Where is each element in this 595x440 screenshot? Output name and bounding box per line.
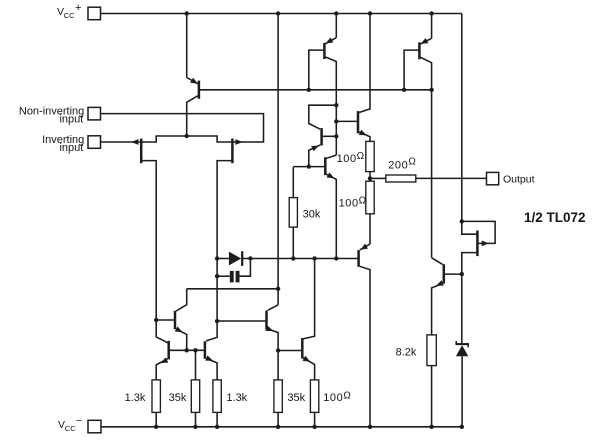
junction dot Q2 emitter on base line [185, 348, 189, 352]
resistor R30k (30k) [289, 198, 321, 228]
resistor R7 (100R) [310, 380, 351, 427]
capacitor C1 (compensation) [217, 259, 250, 283]
junction dot Q4 base [334, 134, 338, 138]
svg-text:35k: 35k [287, 392, 305, 404]
wire VCC mid column (rail to Q8 collector) [277, 14, 279, 305]
transistor Q9 (NPN current sink) [302, 259, 314, 380]
wire mirror base line (Q11 to Q12) [170, 349, 204, 351]
label 1/2 TL072 [524, 210, 586, 225]
wire Q1 emitter feed [186, 14, 188, 78]
resistor R2 (100R lower) [339, 181, 375, 214]
terminal Inverting input [42, 134, 100, 154]
wire non-inverting input to J2 gate [101, 114, 264, 142]
node common source (J1/J2) [185, 134, 189, 138]
junction dot C1 left [215, 274, 219, 278]
zener diode D2 [456, 341, 469, 427]
wire Q9 base line [278, 350, 301, 352]
transistor Q13 (NPN output, right) [432, 258, 462, 335]
junction dot Q8 emitter / Q9 base [276, 348, 280, 352]
svg-text:Output: Output [503, 173, 535, 185]
svg-text:input: input [59, 114, 83, 126]
wire 8.2k to rail [431, 366, 433, 427]
svg-text:+: + [75, 2, 81, 14]
transistor Q7 (PNP output) [359, 244, 370, 427]
wire 30k feed lower [292, 227, 294, 258]
terminal VCC- [58, 415, 101, 433]
junction dots on VCC- rail [154, 425, 464, 429]
transistor Q6 (NPN, drives 100R string) [336, 14, 370, 142]
svg-text:−: − [76, 415, 82, 427]
junction dot VCC mid at y=288.8 [276, 287, 280, 291]
wire 35k#1 feed [195, 350, 197, 380]
wire 30k feed upper [292, 167, 294, 198]
JFET J1 (inverting input, p-channel) [131, 139, 156, 320]
wire R2 to Q7 emitter [369, 214, 371, 244]
junction dot Q5 emitter node [334, 256, 338, 260]
svg-text:1/2 TL072: 1/2 TL072 [524, 210, 586, 225]
wire Q2 collector line [187, 288, 278, 290]
junction dot J1 drain / Q2 base [154, 318, 158, 322]
svg-text:30k: 30k [303, 208, 321, 220]
terminal Output [487, 172, 535, 185]
svg-text:Ω: Ω [408, 157, 416, 168]
wire VCC+ rail [101, 13, 462, 15]
junction dot bus end at Q10 collector [429, 88, 433, 92]
wire J3 drain to zener [461, 274, 463, 344]
JFET J3 (output bias, p-channel) [460, 219, 496, 274]
wire Q4 collector jog [309, 105, 337, 129]
junction dot at (336.3,105.2) [334, 103, 338, 107]
junction dot J2 drain / Q12 collector [215, 319, 219, 323]
resistor R4 (35k) [169, 380, 200, 427]
wire base bus (Q1/Q3/Q10 current mirror) [200, 89, 432, 91]
transistor Q12 (NPN mirror right) [205, 321, 217, 380]
wire Q5 base line [293, 166, 324, 168]
junction dot output node [368, 176, 372, 180]
JFET J2 (non-inverting input, p-channel) [217, 139, 243, 322]
resistor R5 (1.3k) [213, 380, 248, 427]
transistor Q11 (NPN mirror left) [156, 341, 169, 380]
wire Q10 emitter feed [431, 14, 433, 39]
wire VCC- rail [101, 426, 462, 428]
terminal VCC+ [57, 2, 101, 20]
wire J1 drain to Q11 collector [156, 320, 167, 343]
resistor R3 (1.3k) [125, 380, 161, 427]
svg-text:35k: 35k [169, 392, 187, 404]
svg-text:100: 100 [323, 392, 343, 404]
resistor R8 (200R) [370, 157, 416, 183]
svg-text:200: 200 [388, 159, 408, 171]
junction dot 35k tap on base line [193, 348, 197, 352]
wire Q12 collector node to Q8 base [217, 320, 265, 322]
wire inverting input to J1 gate [101, 141, 141, 143]
wire second-stage node (D1 cathode to Q7 base) [250, 258, 357, 260]
transistor Q5 (NPN second stage) [325, 155, 336, 258]
svg-text:100: 100 [337, 153, 357, 165]
transistor Q2 (NPN mirror helper) [156, 289, 187, 351]
transistor Q1 (PNP current source, input stage) [187, 78, 199, 137]
junction dot Q4 emitter / Q5 base [307, 164, 311, 168]
wire R1 to R2 [369, 172, 371, 182]
svg-text:CC: CC [64, 11, 75, 20]
resistor R6 (35k) [274, 380, 306, 427]
junction dot 30k bottom [291, 256, 295, 260]
svg-text:input: input [59, 142, 83, 154]
svg-text:CC: CC [65, 424, 76, 433]
svg-text:100: 100 [339, 198, 359, 210]
junction dot C1 top [248, 256, 252, 260]
svg-text:1.3k: 1.3k [226, 392, 247, 404]
resistor R1 (100R upper) [337, 141, 375, 171]
transistor Q3 (PNP mirror, middle) [309, 37, 337, 105]
wire right edge vertical (VCC+ to output JFET) [461, 14, 463, 222]
junction dot Q9 collector node [312, 256, 316, 260]
wire output line [416, 177, 487, 179]
junction dot Q6 base tap [334, 119, 338, 123]
wire common source staircase [142, 136, 232, 142]
transistor Q8 (NPN follower) [266, 305, 279, 351]
junction dot Q3 base on bus [307, 88, 311, 92]
svg-text:Ω: Ω [359, 196, 367, 207]
transistor Q4 (PNP diode-connected cascode) [309, 128, 337, 167]
wire 35k#2 feed [277, 351, 279, 380]
resistor R9 (8.2k) [396, 335, 437, 366]
svg-text:8.2k: 8.2k [396, 347, 417, 359]
transistor Q10 (PNP mirror, right) [404, 38, 432, 258]
wire Q3 emitter feed [335, 14, 337, 38]
junction dot D1 anode [215, 256, 219, 260]
wire chain x=336.3 (Q4 base/collector to Q5 collector) [335, 105, 337, 155]
svg-text:Ω: Ω [343, 391, 351, 402]
diode D1 (level shift) [217, 251, 250, 266]
junction dot J3 drain / Q13 base [460, 272, 464, 276]
junction dots on VCC+ rail [185, 11, 434, 15]
svg-text:1.3k: 1.3k [125, 392, 146, 404]
svg-text:Ω: Ω [357, 151, 365, 162]
junction dot Q10 base on bus [402, 88, 406, 92]
terminal Non-inverting input [19, 105, 101, 125]
